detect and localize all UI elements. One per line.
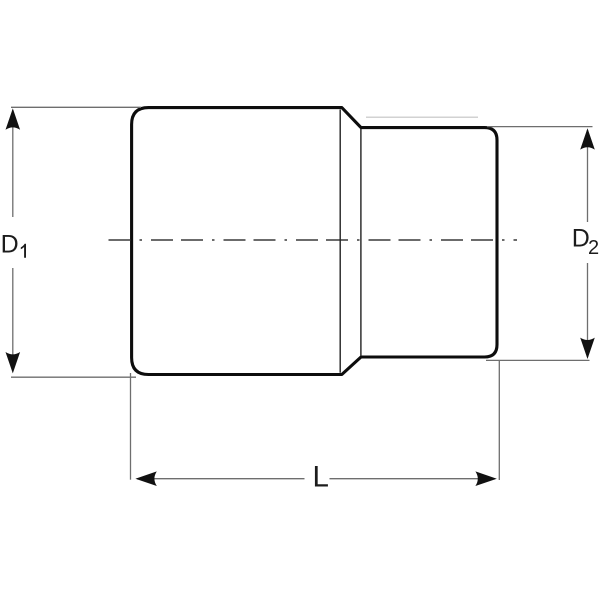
svg-text:L: L [313, 460, 329, 493]
centerline (dash-dot axis) [109, 239, 518, 241]
D2 dimension line [587, 130, 589, 357]
svg-text:2: 2 [588, 237, 599, 259]
D2 top arrowhead [580, 128, 595, 149]
socket body outline (large cylinder, chamfer, drive end) [132, 108, 497, 375]
L left arrowhead [135, 471, 156, 486]
D1 bottom arrowhead [6, 352, 21, 373]
L dimension line [137, 478, 495, 480]
D2 bottom extension line [486, 359, 590, 361]
D2 top extension line [487, 126, 593, 128]
L left extension line [130, 373, 132, 480]
D1 top extension line [11, 106, 141, 108]
tangent edge line at large cylinder end [339, 110, 341, 373]
tangent edge line at drive end start [360, 129, 362, 356]
L right arrowhead [475, 471, 496, 486]
faint chamfer edge line above drive end [366, 116, 478, 118]
D1 dimension line [12, 110, 14, 371]
svg-text:D: D [1, 230, 19, 258]
D1 top arrowhead [6, 108, 21, 129]
D2 bottom arrowhead [580, 338, 595, 359]
L right extension line [498, 361, 500, 480]
D1 bottom extension line [11, 376, 136, 378]
